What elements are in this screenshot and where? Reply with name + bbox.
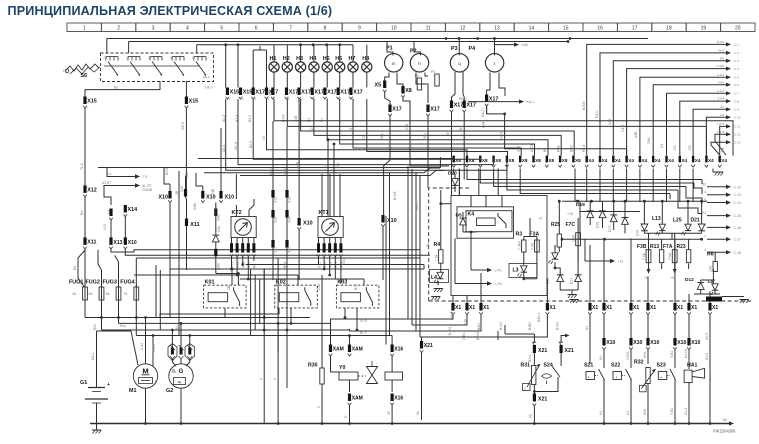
svg-text:X17: X17 bbox=[454, 103, 464, 109]
connector X17 row1 at x=286.5 bbox=[285, 88, 288, 96]
svg-text:S1: S1 bbox=[320, 118, 324, 122]
svg-text:B4N-1: B4N-1 bbox=[537, 312, 541, 322]
wire X17-P2 vertical down bbox=[427, 116, 429, 188]
svg-text:B-R1: B-R1 bbox=[165, 167, 169, 175]
wire FUG2 bottom bbox=[101, 302, 103, 318]
wire lamp H5 bottom bbox=[326, 72, 328, 88]
wire staircase 5 to right arrow bbox=[640, 77, 726, 155]
wire battery top bbox=[96, 331, 98, 388]
wire X17-P3b to upper right band bbox=[463, 112, 465, 180]
svg-text:X10: X10 bbox=[677, 340, 686, 346]
svg-text:H7: H7 bbox=[349, 56, 356, 62]
svg-text:7k-5: 7k-5 bbox=[80, 163, 84, 170]
connector X1 #11 bbox=[708, 303, 711, 311]
G2 connector shield outline bbox=[168, 344, 177, 361]
svg-text:FS-D: FS-D bbox=[152, 344, 156, 352]
svg-text:X17: X17 bbox=[327, 90, 337, 96]
wire trunk pair verticals bbox=[385, 216, 387, 345]
svg-text:19: 19 bbox=[170, 56, 174, 60]
svg-text:X1: X1 bbox=[606, 305, 612, 311]
svg-text:X15: X15 bbox=[243, 90, 253, 96]
ground right end bbox=[740, 299, 749, 301]
svg-text:X17: X17 bbox=[353, 90, 363, 96]
wire X1 bar risers bbox=[452, 296, 454, 304]
svg-text:16: 16 bbox=[597, 25, 603, 31]
svg-text:N4-5: N4-5 bbox=[717, 122, 724, 126]
connector X1 #9 bbox=[673, 303, 676, 311]
svg-text:G4B: G4B bbox=[193, 202, 197, 210]
svg-text:B2-5: B2-5 bbox=[249, 141, 253, 148]
svg-text:2F: 2F bbox=[387, 411, 391, 415]
connector X10 mid bbox=[124, 237, 127, 245]
motor M1 bbox=[133, 364, 157, 388]
connector X21 second bbox=[559, 342, 563, 345]
wire X21 second up arrow bbox=[561, 336, 565, 343]
connector X13 bbox=[109, 237, 112, 245]
svg-text:7-5: 7-5 bbox=[143, 175, 148, 179]
svg-text:8A: 8A bbox=[89, 292, 94, 296]
svg-text:C-12: C-12 bbox=[734, 133, 741, 137]
svg-text:30: 30 bbox=[104, 56, 108, 60]
svg-text:K01: K01 bbox=[205, 279, 215, 285]
svg-text:Bo: Bo bbox=[114, 86, 118, 90]
svg-text:X16: X16 bbox=[394, 396, 403, 402]
svg-text:B1N: B1N bbox=[269, 168, 273, 175]
wire mid arrow 2 bbox=[112, 185, 136, 187]
generator G2 bbox=[169, 364, 193, 388]
svg-text:X1: X1 bbox=[549, 305, 555, 311]
connector X8 row2 #5 bbox=[506, 156, 508, 163]
svg-text:FUG2: FUG2 bbox=[86, 280, 100, 286]
svg-text:F7A: F7A bbox=[663, 244, 673, 250]
wire S24 lever bbox=[560, 353, 562, 366]
wire right mid bus 3 bbox=[562, 238, 702, 240]
svg-text:K4: K4 bbox=[468, 212, 475, 218]
connector X8 under P1 bbox=[401, 86, 404, 94]
svg-text:12: 12 bbox=[460, 25, 466, 31]
svg-text:P4: P4 bbox=[469, 46, 476, 52]
svg-text:Z4B: Z4B bbox=[464, 318, 468, 325]
relay KT1 bbox=[318, 217, 343, 238]
wire R32 down bbox=[647, 384, 649, 424]
svg-text:X8: X8 bbox=[495, 158, 501, 163]
svg-text:Re: Re bbox=[73, 266, 77, 270]
svg-text:D21: D21 bbox=[691, 218, 700, 224]
svg-text:X17: X17 bbox=[314, 90, 324, 96]
wire X4 bars down to right-mid bus bbox=[586, 169, 588, 203]
wire S6 to X15 left bbox=[85, 81, 160, 97]
svg-text:X17: X17 bbox=[430, 107, 440, 113]
connector X12 left bbox=[83, 185, 86, 193]
wire L3 chain bbox=[523, 252, 525, 265]
wire staircase 11 to right arrow bbox=[720, 126, 726, 155]
svg-text:9: 9 bbox=[358, 25, 361, 31]
connector X21 bottom bbox=[533, 385, 535, 392]
svg-text:X17: X17 bbox=[392, 107, 402, 113]
connector X18 pair bbox=[271, 210, 274, 218]
svg-text:L3: L3 bbox=[513, 268, 519, 274]
connector XAD top bbox=[214, 209, 217, 217]
K4 coil bbox=[477, 218, 496, 226]
svg-text:X1: X1 bbox=[469, 305, 475, 311]
svg-text:X8: X8 bbox=[562, 158, 568, 163]
svg-text:X4: X4 bbox=[615, 158, 621, 163]
svg-text:X8: X8 bbox=[575, 158, 581, 163]
connector XAM 1 bbox=[329, 345, 332, 353]
svg-text:XT2: XT2 bbox=[236, 262, 240, 268]
connector X4 row2 #14 bbox=[625, 156, 627, 163]
wire lamp H7 top bbox=[352, 45, 354, 62]
svg-text:F6: F6 bbox=[431, 70, 435, 74]
svg-text:X4: X4 bbox=[628, 158, 634, 163]
svg-text:V-B1: V-B1 bbox=[717, 80, 724, 84]
wire mid horizontal 264 bbox=[246, 264, 424, 266]
svg-text:15: 15 bbox=[563, 25, 569, 31]
ground mid right bbox=[568, 294, 577, 296]
svg-text:XAM: XAM bbox=[352, 396, 363, 402]
svg-text:C-3: C-3 bbox=[734, 59, 739, 63]
svg-text:15: 15 bbox=[126, 56, 130, 60]
svg-text:X10: X10 bbox=[650, 340, 659, 346]
svg-text:5: 5 bbox=[220, 25, 223, 31]
svg-text:X1: X1 bbox=[592, 305, 598, 311]
connector X4 row2 #19 bbox=[692, 156, 694, 163]
svg-text:C-2: C-2 bbox=[734, 51, 739, 55]
svg-text:B0B1: B0B1 bbox=[528, 322, 532, 330]
svg-text:X4: X4 bbox=[695, 158, 701, 163]
connector X10 pair bbox=[271, 240, 274, 248]
svg-text:Z-A1: Z-A1 bbox=[140, 343, 144, 350]
svg-text:A1-5: A1-5 bbox=[684, 408, 688, 415]
svg-text:◒: ◒ bbox=[660, 375, 662, 379]
svg-text:C-4: C-4 bbox=[734, 67, 739, 71]
wire K01 feeds bbox=[231, 269, 233, 285]
wire KT1 column verticals bbox=[321, 174, 323, 217]
svg-text:D17: D17 bbox=[608, 226, 612, 232]
wire bars to X1 long verticals bbox=[579, 202, 581, 240]
wire right mid connections bbox=[558, 201, 560, 205]
svg-text:X10: X10 bbox=[633, 340, 642, 346]
svg-text:GE-5: GE-5 bbox=[181, 122, 185, 130]
svg-text:D1: D1 bbox=[310, 126, 314, 130]
svg-text:B1s: B1s bbox=[354, 284, 358, 290]
svg-text:R50: R50 bbox=[93, 324, 97, 330]
wire XAD drop2 bbox=[215, 256, 217, 273]
svg-text:B-N4: B-N4 bbox=[717, 40, 724, 44]
wire staircase 8 to right arrow bbox=[680, 101, 726, 155]
svg-text:7: 7 bbox=[289, 25, 292, 31]
svg-text:X1: X1 bbox=[691, 305, 697, 311]
svg-text:D1: D1 bbox=[307, 118, 311, 122]
wire P1 to X5 bbox=[385, 73, 389, 81]
svg-text:P3: P3 bbox=[451, 46, 458, 52]
svg-text:A-G4: A-G4 bbox=[500, 132, 504, 140]
svg-text:G2: G2 bbox=[166, 388, 173, 394]
wire HA1 down bbox=[688, 382, 690, 424]
connector XAD bottom bbox=[214, 249, 217, 256]
wire trunk center verticals bbox=[458, 169, 460, 196]
connector X17 row1 at x=312.2 bbox=[311, 88, 314, 96]
svg-text:FUG3: FUG3 bbox=[103, 280, 117, 286]
svg-text:A-G1: A-G1 bbox=[717, 89, 724, 93]
svg-text:X21: X21 bbox=[565, 348, 574, 354]
relay K4 box bbox=[466, 211, 512, 232]
svg-text:RW-1: RW-1 bbox=[459, 97, 467, 101]
svg-text:G6: G6 bbox=[720, 113, 724, 117]
svg-text:GONB: GONB bbox=[142, 188, 153, 192]
wire staircase 7 to right arrow bbox=[667, 93, 727, 155]
svg-text:X16: X16 bbox=[394, 347, 403, 353]
connector X17 under P2 bbox=[426, 105, 429, 113]
wire X19/X18 verticals bbox=[272, 121, 274, 190]
right mid arrow 6 bbox=[707, 238, 727, 240]
wire low band 2 bbox=[238, 99, 494, 165]
wire staircase 2 to right arrow bbox=[600, 53, 726, 155]
connector X15 row1 at x=227.4 bbox=[226, 88, 229, 96]
svg-text:Z4B: Z4B bbox=[211, 188, 215, 195]
svg-text:H6: H6 bbox=[335, 56, 342, 62]
svg-text:X21: X21 bbox=[538, 348, 547, 354]
wire P4 legs bbox=[487, 73, 490, 95]
connector X8 row2 #8 bbox=[546, 156, 548, 163]
connector X10 right of KT2 bbox=[298, 218, 301, 226]
svg-text:1kO: 1kO bbox=[709, 265, 713, 272]
S6 wiper bus bbox=[104, 65, 200, 67]
svg-text:S23: S23 bbox=[657, 363, 666, 369]
svg-text:D20: D20 bbox=[448, 171, 457, 177]
wire X1 staircase left-bottom bbox=[408, 315, 453, 320]
connector X16 group bar2 bbox=[184, 189, 187, 197]
wire battery bottom to ground bbox=[96, 403, 98, 430]
wire to X21 right pair bbox=[504, 325, 506, 334]
svg-text:2: 2 bbox=[273, 378, 277, 380]
svg-text:Z4N: Z4N bbox=[647, 137, 651, 144]
svg-text:KA-1: KA-1 bbox=[527, 100, 535, 104]
connector X4 row2 #20 bbox=[705, 156, 707, 163]
connector X17 row1 at x=350.9 bbox=[349, 88, 352, 96]
thick connector top right bbox=[706, 297, 722, 302]
svg-text:◐: ◐ bbox=[588, 375, 590, 379]
svg-text:C-9: C-9 bbox=[734, 108, 739, 112]
wire FUG tops bbox=[98, 250, 102, 287]
wire S6 riser 3 bbox=[196, 45, 198, 53]
wire R31 to bus bbox=[533, 406, 535, 424]
wire staircase 9 to right arrow bbox=[693, 109, 726, 155]
connector X1 #4 bbox=[546, 303, 549, 311]
svg-text:X8: X8 bbox=[482, 158, 488, 163]
connector X16 top bbox=[391, 345, 394, 353]
svg-text:B5: B5 bbox=[459, 126, 463, 130]
svg-text:L4: L4 bbox=[107, 172, 111, 176]
svg-text:R3: R3 bbox=[516, 232, 523, 238]
svg-text:+: + bbox=[155, 380, 157, 384]
svg-text:4: 4 bbox=[186, 25, 189, 31]
svg-text:X15: X15 bbox=[230, 90, 240, 96]
wire P1 riser bbox=[387, 42, 393, 56]
wire K4 internals bbox=[463, 231, 477, 233]
svg-text:11: 11 bbox=[426, 25, 431, 31]
svg-text:N1: N1 bbox=[585, 326, 589, 330]
svg-text:KA4: KA4 bbox=[482, 121, 486, 128]
svg-text:R5-4: R5-4 bbox=[582, 145, 586, 152]
svg-text:B0-1: B0-1 bbox=[175, 323, 179, 330]
svg-text:X19: X19 bbox=[274, 197, 278, 203]
svg-text:2: 2 bbox=[117, 25, 120, 31]
svg-text:N4: N4 bbox=[721, 148, 725, 152]
connector X17 under X5 bbox=[388, 105, 391, 113]
wire trunk verticals k-relays bbox=[224, 308, 226, 318]
svg-text:B2-5: B2-5 bbox=[248, 115, 252, 122]
svg-text:17: 17 bbox=[192, 56, 196, 60]
wire staircase into mid bbox=[331, 319, 409, 336]
connector X21 right bbox=[533, 342, 537, 345]
svg-text:R32: R32 bbox=[634, 360, 644, 366]
wire X10 r-KT2 drop bbox=[298, 99, 300, 218]
svg-text:X10: X10 bbox=[606, 340, 615, 346]
connector X1 #3 bbox=[479, 303, 482, 311]
ignition key symbol bbox=[66, 64, 99, 71]
svg-text:X4: X4 bbox=[681, 158, 687, 163]
wire X12 to X11 bbox=[84, 197, 86, 237]
svg-text:X4: X4 bbox=[602, 158, 608, 163]
wire D20 stub bbox=[453, 169, 455, 174]
ground above X1 row mid bbox=[570, 299, 579, 301]
diode D10 bbox=[557, 275, 564, 282]
S6 internal contacts bbox=[105, 57, 107, 61]
wire battery to M1 bbox=[97, 330, 132, 332]
svg-text:B-W1: B-W1 bbox=[476, 331, 480, 340]
svg-text:R4: R4 bbox=[434, 242, 441, 248]
wire from X17 P4 down bbox=[486, 106, 488, 114]
connector X17 row1 at x=324.9 bbox=[323, 88, 326, 96]
svg-text:7.5A: 7.5A bbox=[642, 252, 646, 260]
svg-text:4A: 4A bbox=[72, 292, 77, 296]
svg-text:8: 8 bbox=[324, 25, 327, 31]
svg-text:H8: H8 bbox=[362, 56, 369, 62]
svg-text:X10: X10 bbox=[387, 218, 397, 224]
svg-text:B-W1: B-W1 bbox=[499, 321, 503, 330]
svg-text:XAD: XAD bbox=[217, 213, 221, 221]
svg-text:V1N: V1N bbox=[283, 168, 287, 175]
G2 connector bars bbox=[171, 348, 174, 355]
wire mid band 4 bbox=[314, 99, 561, 156]
connector X10 group bar4 bbox=[219, 191, 222, 199]
diode XAD triangle bbox=[215, 203, 217, 235]
connector X4 row2 #18 bbox=[679, 156, 681, 163]
KT1 pins bbox=[318, 238, 320, 244]
wire branch diagonal bbox=[78, 250, 85, 288]
svg-text:0.3kO: 0.3kO bbox=[518, 241, 522, 250]
right edge arrow 3 bbox=[726, 59, 731, 63]
wire X8-P1 drop bbox=[403, 98, 449, 167]
connector X4 row2 #13 bbox=[612, 156, 614, 163]
wire S21 down bbox=[603, 379, 605, 424]
svg-text:G5: G5 bbox=[688, 145, 692, 150]
svg-text:X30: X30 bbox=[268, 90, 272, 96]
second solenoid bbox=[385, 372, 403, 380]
junction dots right mid bbox=[576, 200, 579, 203]
connector X4 row2 #21 bbox=[719, 156, 721, 163]
wire arrow K4 1 bbox=[471, 269, 488, 271]
wire D12/L6 net bbox=[712, 269, 714, 284]
ground above X1 row left bbox=[431, 296, 440, 298]
svg-text:BsN: BsN bbox=[283, 261, 287, 268]
wire band to arrows bbox=[701, 180, 703, 185]
connector X17 row1 at x=253.2 bbox=[252, 88, 255, 96]
svg-text:X12: X12 bbox=[87, 188, 97, 194]
svg-text:m: m bbox=[392, 61, 396, 66]
right edge arrow 2 bbox=[726, 51, 731, 55]
svg-text:X8: X8 bbox=[455, 158, 461, 163]
svg-text:X1: X1 bbox=[677, 305, 683, 311]
connector X1 #8 bbox=[646, 303, 649, 311]
svg-text:2B: 2B bbox=[227, 285, 231, 290]
LED L4 bbox=[430, 270, 449, 283]
wire arrow feeds bbox=[107, 168, 112, 177]
wire X16 bar down bbox=[186, 197, 187, 203]
svg-text:B0s1: B0s1 bbox=[528, 354, 532, 362]
wire M1 down bbox=[145, 388, 147, 423]
svg-text:L-R1: L-R1 bbox=[495, 269, 502, 273]
svg-text:FUG1: FUG1 bbox=[69, 280, 83, 286]
wire verticals bottom right bbox=[589, 315, 591, 339]
wire staircase 1 to right arrow bbox=[587, 44, 726, 155]
wire X14 down bbox=[124, 217, 126, 238]
wire X13 staircase right bbox=[111, 249, 420, 252]
connector X12 mid bbox=[109, 209, 112, 217]
wire K02/K03 outputs bbox=[160, 308, 279, 318]
wire inter-relay verticals bbox=[250, 269, 252, 336]
svg-text:C-6: C-6 bbox=[734, 83, 739, 87]
svg-text:M2-1: M2-1 bbox=[91, 352, 95, 360]
right edge arrow 1 bbox=[726, 42, 731, 46]
svg-text:C-12: C-12 bbox=[734, 185, 741, 189]
svg-text:A2-4: A2-4 bbox=[222, 145, 226, 152]
connector X8 row2 #7 bbox=[532, 156, 534, 163]
connector X1 #6 bbox=[602, 303, 605, 311]
svg-text:L4A: L4A bbox=[185, 171, 189, 178]
svg-text:X4: X4 bbox=[668, 158, 674, 163]
wire FUG4 bottom bbox=[135, 302, 137, 318]
wire G2 down bbox=[180, 388, 182, 423]
svg-text:Br 3: Br 3 bbox=[360, 331, 366, 335]
wire R3/F3A top bbox=[524, 236, 537, 238]
svg-text:R30: R30 bbox=[308, 363, 318, 369]
connector X30 row1 at x=272.8 bbox=[271, 88, 274, 96]
svg-text:G4s: G4s bbox=[317, 283, 321, 290]
svg-text:L25: L25 bbox=[673, 218, 682, 224]
svg-text:13: 13 bbox=[494, 25, 500, 31]
svg-text:X1: X1 bbox=[633, 305, 639, 311]
ground under G1 bbox=[92, 429, 101, 431]
wire FUG3 bottom bbox=[118, 302, 120, 318]
svg-text:X10: X10 bbox=[303, 221, 313, 227]
svg-text:G1: G1 bbox=[362, 135, 366, 140]
wire lamp H7 bottom bbox=[352, 72, 354, 88]
wire FUG1 bottom bbox=[84, 302, 86, 318]
svg-text:KA(1): KA(1) bbox=[481, 108, 485, 117]
svg-text:H2: H2 bbox=[283, 56, 290, 62]
svg-text:IN-5: IN-5 bbox=[718, 49, 724, 53]
svg-text:N4-5: N4-5 bbox=[717, 130, 724, 134]
relay K01 bbox=[204, 285, 247, 308]
right edge arrow 9 bbox=[726, 107, 731, 111]
svg-text:10: 10 bbox=[702, 223, 706, 227]
wire lamp H4 top bbox=[313, 45, 315, 62]
wire S23 down bbox=[674, 379, 676, 424]
svg-text:X10: X10 bbox=[128, 240, 137, 246]
connector X8 row2 #6 bbox=[519, 156, 521, 163]
